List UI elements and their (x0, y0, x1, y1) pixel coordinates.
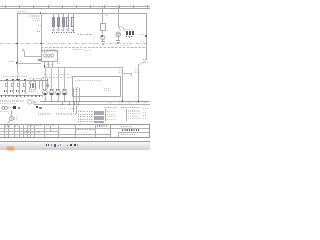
U1 wire 3 (78, 88, 81, 101)
breaker F11 label (4, 90, 9, 92)
legend dotted link (8, 106, 13, 109)
motor M1 symbol (0, 0, 150, 150)
bus L1 label text (18, 11, 26, 12)
K1 aux terminal mark (38, 59, 40, 60)
left mid faint text (8, 61, 13, 62)
title cell line right a (110, 127, 150, 130)
node M2 rail (51, 101, 52, 102)
legend text row 1 (0, 100, 11, 101)
main switch Q2 label (18, 61, 21, 62)
motor M1 stub (44, 95, 47, 101)
wire B labels (135, 70, 138, 71)
bus L1 tick x47 (47, 5, 50, 9)
wire label to consumers (78, 34, 92, 35)
bus L1 tick x19 (18, 5, 21, 9)
toolbar icon c (60, 144, 61, 146)
connector X2 pin 1 (126, 31, 128, 34)
control feed wire horizontal (41, 46, 146, 49)
text block cabinet note (30, 15, 40, 16)
wire jog from right edge (0, 0, 150, 150)
title block col 13 (94, 124, 97, 137)
meter P1 circle (0, 0, 150, 150)
right margin wire label 2 (141, 41, 144, 42)
title block col 4 (18, 124, 21, 137)
IO collector wire (104, 109, 107, 121)
jog labels (143, 59, 147, 60)
main switch Q2 contact (0, 0, 150, 150)
K1 top label text (42, 51, 57, 52)
fuse F1 arrow (0, 0, 150, 150)
node boundary crossing Q1 (40, 43, 41, 44)
node M3 rail (57, 101, 58, 102)
enclosure left edge wire (16, 13, 19, 63)
node junction at K2 feed (102, 13, 103, 14)
toolbar icon last (74, 144, 76, 146)
node F14 (24, 79, 25, 80)
field boundary dashed line (42, 76, 72, 79)
control wire label 2 (44, 52, 47, 53)
K1 contact marks (44, 57, 54, 58)
IO row 2 text (78, 114, 93, 115)
rail tick 74 (73, 101, 76, 105)
cable terminal num 3 (143, 118, 147, 119)
cable row 1 (128, 110, 140, 111)
pump terminal outline (39, 107, 41, 109)
breaker F14 label (22, 90, 27, 92)
main switch Q2 wire lower (16, 75, 19, 80)
M5 labels (14, 117, 17, 118)
rail connect F14 (24, 92, 27, 94)
relay coil K2 box (100, 23, 106, 32)
meter P1 pointer (101, 35, 102, 37)
fuse F5 lower stub (72, 27, 75, 33)
node Q2 at rail (16, 79, 17, 80)
title block col 5 (22, 124, 25, 137)
ground symbol (116, 39, 121, 42)
viewer toolbar top border (0, 140, 150, 143)
node X1c (47, 79, 48, 80)
rail tick 78 (77, 101, 80, 105)
legend dark square (13, 106, 15, 108)
terminal numbers row (1, 95, 40, 97)
motor M2 drop (50, 68, 53, 90)
neutral rail left (0, 94, 42, 97)
boundary label right (120, 45, 129, 46)
breaker F12 label (10, 90, 15, 92)
cable row 4 (128, 118, 140, 119)
X1 label (29, 91, 36, 92)
toolbar icon page field (54, 144, 56, 147)
motor M4 stub (63, 95, 66, 101)
control unit U1 box (72, 76, 121, 97)
U1 inner text (104, 88, 109, 89)
node right margin junction (145, 35, 146, 36)
bus L1 tick x33 (32, 5, 35, 9)
fuse F5 arrow (0, 0, 150, 150)
fuse F3 lower stub (62, 27, 65, 29)
fuse F2 lower stub (57, 27, 60, 29)
U1 wire 1 (72, 88, 75, 112)
motor M2 label (50, 89, 54, 91)
toolbar icon minus (67, 145, 69, 146)
node X1b (41, 79, 42, 80)
wire K1 coil feed horizontal (24, 55, 40, 58)
K1 contacts circles (0, 0, 150, 150)
neutral rail N (40, 100, 150, 103)
wire K1 coil feed vertical (23, 52, 26, 56)
terminal strip X1 dashed box (29, 81, 37, 90)
title texts (29, 125, 38, 126)
bus L1 tick x132 (132, 5, 135, 9)
rail end hook (41, 95, 44, 98)
wire step right (122, 72, 131, 75)
IO row 1 text (78, 111, 93, 112)
IO row 5 box (94, 121, 104, 123)
IO list header (104, 107, 117, 108)
bus L1 tick x61 (61, 5, 64, 9)
motor feed rail horizontal (44, 66, 123, 69)
ground symbol P1 (101, 40, 106, 43)
breaker F11 (6, 80, 9, 83)
legend outline square (18, 107, 21, 109)
rail connect F12 (12, 92, 15, 94)
node F13 (18, 79, 19, 80)
node U1 w2 (76, 101, 77, 102)
bus L1 tick x147 (146, 5, 149, 9)
pump line (34, 103, 44, 106)
wire labels below K1 (47, 64, 52, 65)
wire P1 down (101, 38, 104, 41)
fuse F4 arrow (0, 0, 150, 150)
control wire label (44, 50, 48, 51)
U1 title text (75, 80, 102, 81)
node wire A rail (122, 100, 123, 101)
node junction at Q1 feed (40, 12, 41, 13)
legend text row 1b (12, 100, 24, 101)
cable label row above boundary (44, 74, 69, 75)
toolbar icon sep (47, 144, 50, 146)
IO row 4 text (78, 119, 93, 120)
toolbar icon b (57, 145, 60, 147)
fuse F1 label (52, 32, 56, 34)
IO row 5 text (78, 121, 93, 122)
cable list header (121, 107, 140, 108)
K1 aux mark (55, 59, 58, 60)
boundary label (72, 49, 84, 50)
wire H1 to ground (117, 37, 120, 40)
bus L1 tick x5 (4, 5, 7, 9)
IO row 3 text (78, 116, 93, 117)
cable terminal num 1 (143, 112, 147, 113)
K1 output drop 3 (51, 62, 54, 67)
main switch Q2 wire upper (16, 63, 19, 70)
aux device wire (46, 81, 49, 90)
IO row 3 box (94, 116, 104, 118)
title block row line 2 (0, 127, 110, 130)
wire right column A (121, 67, 124, 101)
wire via X1 a (38, 81, 41, 90)
wire K2 to P1 (101, 31, 104, 34)
IO row 4 box (94, 118, 104, 120)
pump terminal dark (36, 106, 38, 108)
node F11 (6, 79, 7, 80)
motor M4 label (63, 89, 67, 91)
fuse F4 (66, 17, 69, 27)
cable terminal num 2 (143, 115, 147, 116)
title block col 2 (7, 124, 10, 137)
title block col 12 (74, 124, 77, 137)
node U1 w3 (79, 101, 80, 102)
wire A labels (119, 70, 122, 71)
IO row 2 box (94, 113, 104, 115)
K1 output drop 1 (43, 62, 46, 67)
cable list wire (125, 109, 128, 121)
wire step down into box (130, 73, 133, 76)
fuse F5 (71, 17, 74, 27)
node boundary crossing left (16, 43, 17, 44)
rail connect F11 (6, 92, 9, 94)
pump symbol circle (0, 0, 150, 150)
motor M1 label (43, 89, 47, 91)
K1 label above (47, 49, 56, 50)
toolbar icon prev (46, 144, 48, 146)
title block row line 4 (0, 133, 110, 136)
bus L2 secondary horizontal rail (17, 12, 146, 15)
rail tick 62 (61, 101, 64, 105)
toolbar icon next (70, 144, 72, 146)
node U1 w1 (73, 101, 74, 102)
pump note (27, 99, 33, 100)
cross reference mark (129, 36, 131, 37)
U1 wire label (74, 91, 78, 92)
motor M1 drop (44, 68, 47, 90)
fuse F2 (57, 17, 60, 27)
legend text row 3 (0, 111, 8, 112)
note text mid-bottom left (38, 113, 51, 115)
label Q1 (37, 31, 40, 32)
connector X2 label above (125, 29, 133, 30)
fuse F2 label (56, 32, 60, 34)
IO row 1 box (94, 111, 104, 113)
U1 wire 2 (75, 88, 78, 114)
contactor K1 box (41, 50, 59, 62)
title block row line 3 (0, 130, 58, 133)
bus L1 tick x118 (118, 5, 121, 9)
lamp H1 circle with cross (0, 0, 150, 150)
rail connect F13 (18, 92, 21, 94)
legend text row 2 (0, 103, 16, 104)
page bottom border (0, 136, 150, 139)
bus L1 tick x76 (75, 5, 78, 9)
note text mid-bottom right (56, 113, 76, 115)
K2 wire label (105, 15, 109, 16)
fuse F4 lower stub (67, 27, 70, 29)
fuse F1 (52, 17, 55, 27)
legend symbols circles (0, 0, 150, 150)
X1 terminal pins (29, 83, 32, 88)
node M4 rail (64, 101, 65, 102)
wire rail into K1 from left (17, 62, 41, 65)
title block col 10 (49, 124, 52, 130)
motor M3 stub (57, 95, 60, 101)
title block col 6 (26, 124, 29, 137)
node X1a (33, 79, 34, 80)
connector X2 pin 3 (132, 31, 134, 34)
enclosure right edge wire (145, 13, 148, 60)
breaker F14 (24, 80, 27, 83)
title block col 14 (109, 124, 112, 137)
small labels above rails (60, 108, 65, 109)
K1 output drop 2 (47, 62, 50, 67)
connector X2 label below (126, 36, 135, 37)
fuse F4 label (66, 32, 70, 34)
cable note (143, 108, 148, 109)
bus L1 tick x90 (89, 5, 92, 9)
title cell divider (117, 132, 120, 137)
node cluster below K1 (44, 65, 46, 67)
rail label text (3, 76, 28, 77)
pe rail (34, 103, 150, 106)
fuse F3 (62, 17, 65, 27)
toolbar icon d (77, 144, 78, 146)
node at left edge (16, 62, 17, 63)
cable row 3 (128, 116, 139, 117)
node F12 (12, 79, 13, 80)
right margin wire label (141, 34, 145, 35)
bus L1 top horizontal power rail (0, 5, 150, 8)
switch S1 contact (0, 0, 150, 150)
aux device box (46, 84, 49, 87)
viewer toolbar background (0, 142, 150, 150)
toolbar highlight button orange (6, 146, 14, 151)
distribution rail left (0, 79, 48, 82)
title block col 8 (33, 124, 36, 137)
wire Q1 vertical feeder (40, 13, 43, 50)
bus L1 tick x104 (103, 5, 106, 9)
breaker F12 (12, 80, 15, 83)
boundary label 2 (85, 50, 91, 51)
title block col 11 (57, 124, 60, 137)
fuse F1 lower stub (52, 27, 55, 29)
fuse F3 label (61, 32, 65, 34)
pump motor M5 (0, 0, 150, 150)
breaker F13 label (16, 90, 21, 92)
title block col 7 (29, 124, 32, 137)
motor M3 drop (57, 68, 60, 90)
motor M3 label (56, 89, 60, 91)
fuse group F1-F5 stubs top (52, 13, 55, 16)
U1 marks b (75, 89, 79, 90)
rail labels right (109, 102, 113, 103)
page right border (148, 124, 151, 137)
motor M4 drop (63, 68, 66, 90)
wire arrow into K1 (0, 0, 150, 150)
fuse F3 arrow (0, 0, 150, 150)
contactor K2 branch: wire from L1 (101, 7, 104, 24)
bus L1b lower conductor (0, 7, 150, 10)
breaker F13 (18, 80, 21, 83)
node M1 rail (44, 101, 45, 102)
U1 marks a (75, 87, 79, 88)
rail tick 69 (68, 101, 71, 105)
title block top line (0, 123, 150, 126)
cabinet boundary dash-dot line (0, 42, 146, 45)
title block col 9 (43, 124, 46, 137)
title cell line right b (118, 131, 150, 134)
title block col 3 (13, 124, 16, 137)
motor M2 stub (50, 95, 53, 101)
node wire B rail (138, 100, 139, 101)
title block col 1 (3, 124, 6, 137)
wire via X1 b (41, 81, 44, 90)
switch S1 branch wire (117, 7, 120, 26)
wire right column B (137, 64, 140, 101)
cable row 2 (128, 113, 141, 114)
connector X2 pin 2 (129, 31, 131, 34)
pump motor wire (10, 110, 13, 116)
toolbar icon a (51, 144, 52, 146)
fuse F5 label (71, 32, 75, 34)
fuse F2 arrow (0, 0, 150, 150)
